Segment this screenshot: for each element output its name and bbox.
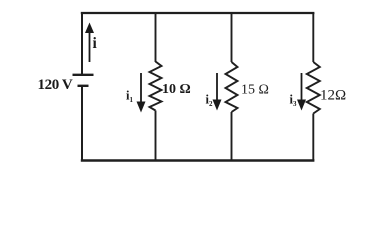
svg-text:i1: i1 <box>126 89 133 105</box>
battery V1 long plate <box>73 74 94 76</box>
wire branch 2 upper segment <box>231 13 233 62</box>
battery V1 short plate <box>78 85 89 87</box>
current arrow i1 (down) <box>137 73 146 113</box>
current arrow i (up) <box>85 23 94 63</box>
svg-text:12Ω: 12Ω <box>320 88 346 104</box>
current arrow i2 (down) <box>213 73 222 111</box>
current arrow i3 (down) <box>297 73 306 111</box>
wire top horizontal <box>81 12 315 14</box>
wire left upper segment <box>81 13 83 74</box>
svg-text:i3: i3 <box>290 93 297 109</box>
resistor R1 zigzag <box>150 62 162 111</box>
svg-text:10 Ω: 10 Ω <box>162 82 191 97</box>
svg-text:i: i <box>93 35 98 52</box>
svg-text:120 V: 120 V <box>38 77 73 93</box>
wire right upper segment <box>312 13 314 62</box>
svg-text:15 Ω: 15 Ω <box>241 83 269 98</box>
resistor R3 zigzag <box>307 62 320 114</box>
resistor R2 zigzag <box>226 62 238 112</box>
wire branch 1 lower segment <box>155 111 157 161</box>
wire right lower segment <box>312 114 314 161</box>
wire branch 1 upper segment <box>155 13 157 62</box>
wire branch 2 lower segment <box>231 112 233 161</box>
svg-text:i2: i2 <box>206 93 213 109</box>
wire bottom horizontal <box>81 159 315 161</box>
wire left lower segment <box>81 86 83 161</box>
